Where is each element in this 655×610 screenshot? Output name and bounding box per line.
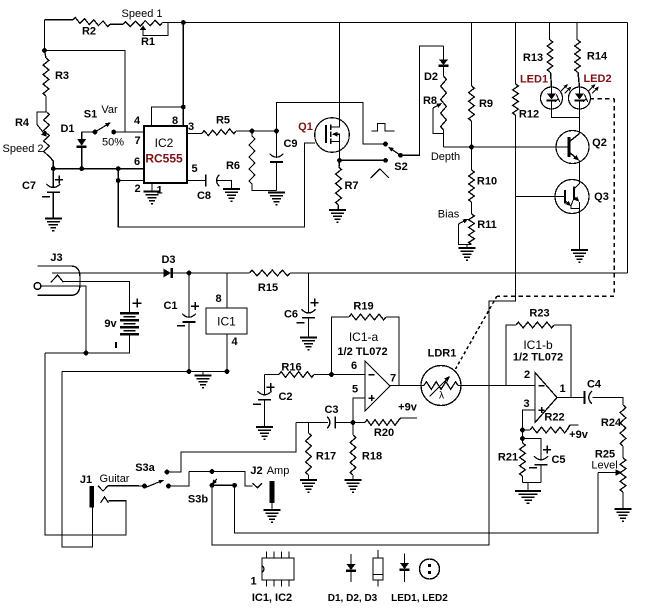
potentiometer R11 Bias <box>438 209 497 245</box>
resistor R9 <box>469 23 493 148</box>
svg-text:R6: R6 <box>226 160 240 172</box>
svg-text:C2: C2 <box>278 391 292 403</box>
wire LDR left <box>421 385 424 387</box>
wire R5 junction to C9 <box>252 130 277 132</box>
switch S1 <box>84 104 124 149</box>
svg-text:+9v: +9v <box>398 402 418 414</box>
svg-text:50%: 50% <box>102 137 124 149</box>
resistor R10 <box>469 147 497 214</box>
pin label IC1b 2 <box>524 369 530 381</box>
resistor R7 <box>336 160 359 209</box>
capacitor C1 <box>163 273 199 372</box>
wire IC1 pin4 <box>226 334 228 372</box>
svg-text:Bias: Bias <box>438 209 460 221</box>
svg-text:J1: J1 <box>80 474 92 486</box>
svg-text:C7: C7 <box>22 180 36 192</box>
svg-text:3: 3 <box>523 398 529 410</box>
svg-text:R4: R4 <box>15 117 30 129</box>
wire LDR to IC1b pin2 <box>458 385 535 387</box>
wire left rail <box>44 20 46 51</box>
wire rail drop to pins 4 8 <box>182 23 184 108</box>
resistor R14 <box>575 23 608 88</box>
diode D2 <box>424 46 449 83</box>
wire C1 to R15 <box>189 272 250 274</box>
symbol triangle wave <box>371 169 390 178</box>
svg-text:+9v: +9v <box>569 429 589 441</box>
transistor Q2 <box>556 131 607 164</box>
wire bus ground stem <box>202 372 204 376</box>
wire C3 right to junction <box>335 422 353 424</box>
svg-text:R5: R5 <box>216 115 230 127</box>
ground J2 <box>264 510 281 522</box>
wire C9 to S2 square input <box>277 103 386 145</box>
svg-text:D2: D2 <box>424 71 438 83</box>
ground C2 <box>256 427 273 439</box>
wire IC1a output <box>390 385 421 387</box>
svg-text:4: 4 <box>134 115 141 127</box>
resistor R18 <box>350 423 382 480</box>
svg-text:1/2 TL072: 1/2 TL072 <box>513 352 563 364</box>
wire IC2 pins 4 8 bracket <box>152 107 184 126</box>
capacitor C6 <box>284 273 319 337</box>
svg-text:8: 8 <box>172 115 178 127</box>
svg-text:R1: R1 <box>141 36 155 48</box>
node rail drop junction <box>181 20 186 25</box>
svg-text:IC1: IC1 <box>217 315 236 329</box>
wire bypass to J2 <box>189 472 253 487</box>
svg-text:R15: R15 <box>258 282 278 294</box>
svg-text:7: 7 <box>134 135 140 147</box>
switch S3a <box>135 462 171 488</box>
diode D3 <box>161 254 189 278</box>
ground IC2 pin1 <box>144 192 161 204</box>
ground R21 C5 <box>515 491 541 503</box>
node D1 junction <box>79 166 84 171</box>
ground R17 <box>300 480 317 492</box>
svg-text:D1, D2, D3: D1, D2, D3 <box>328 593 378 604</box>
label Depth <box>431 151 460 163</box>
battery 9v <box>104 299 141 348</box>
wire S1 contact to pin7 <box>114 131 144 133</box>
svg-text:1: 1 <box>250 576 256 588</box>
wire C8 to ground <box>217 181 232 189</box>
wire pin3 input <box>523 410 536 439</box>
svg-text:LED1, LED2: LED1, LED2 <box>391 593 448 604</box>
wire R15 to right rail <box>309 272 628 274</box>
svg-text:2: 2 <box>134 183 140 195</box>
node pin6 R19 junction <box>329 372 334 377</box>
wire bus to J1 body <box>62 372 93 548</box>
potentiometer R4 Speed 2 <box>3 112 54 169</box>
svg-text:R13: R13 <box>523 52 543 64</box>
wire S2 pole to D2 <box>401 46 444 155</box>
pin label IC1 8 <box>215 293 221 305</box>
svg-text:Q2: Q2 <box>592 137 607 149</box>
wire IC1 pin8 <box>226 273 228 308</box>
wire LED1 bottom <box>552 109 580 118</box>
svg-text:R18: R18 <box>362 451 382 463</box>
switch S3b <box>188 479 237 506</box>
svg-text:9v: 9v <box>104 318 117 330</box>
wire oscillator bottom control <box>53 168 144 170</box>
wire C3 left segment <box>296 422 328 424</box>
svg-text:S3b: S3b <box>188 494 208 506</box>
pin label 2 <box>134 183 140 195</box>
svg-text:D3: D3 <box>161 254 175 266</box>
wire pin6 to pin2 drop <box>117 169 119 181</box>
wire R12 column down <box>212 197 516 546</box>
node R2-R3 junction <box>42 48 47 53</box>
ground C6 <box>300 338 317 350</box>
pin label IC1b 3 <box>523 398 529 410</box>
ground main bus <box>195 376 212 388</box>
potentiometer R1 Speed 1 <box>122 8 168 48</box>
wire R21 C5 bottom <box>523 482 542 484</box>
resistor R22 to +9v <box>523 412 589 442</box>
wire Q1 source <box>339 153 341 161</box>
svg-text:R2: R2 <box>82 26 96 38</box>
op-amp IC1-b <box>513 338 563 423</box>
pin label 4 <box>134 115 141 127</box>
wire R21 ground stem <box>527 483 529 491</box>
ground R11 <box>459 248 476 260</box>
IC IC2 RC555 <box>144 126 187 183</box>
resistor R20 to +9v <box>353 402 418 440</box>
symbol square wave <box>372 124 395 132</box>
capacitor C5 <box>523 439 566 483</box>
svg-text:Amp: Amp <box>267 465 290 477</box>
node Q1 source junction <box>337 158 342 163</box>
svg-text:6: 6 <box>351 360 357 372</box>
wire IC2 pin3 stub <box>187 133 202 135</box>
wire Q1 source to S2 <box>340 159 386 161</box>
resistor R13 <box>523 23 553 88</box>
switch S2 <box>383 142 408 173</box>
wire LED2 bottom to Q2 collector <box>579 109 581 134</box>
resistor R19 feedback <box>332 301 400 386</box>
svg-text:5: 5 <box>191 163 197 175</box>
wire S1 pole to D1 <box>82 131 95 133</box>
wire IC2 pin5 stub <box>187 180 206 182</box>
node R9 depth junction <box>469 145 474 150</box>
node R4-C7-D1 wire junction <box>51 166 56 171</box>
wire J1 tip to S3a <box>108 485 145 487</box>
legend diode package <box>373 550 383 587</box>
node pin4 ground junction <box>225 369 230 374</box>
wire S3a bypass throw <box>169 472 190 487</box>
svg-text:LED1: LED1 <box>520 74 548 86</box>
svg-text:S1: S1 <box>84 109 97 121</box>
node S3b pole junction <box>210 469 215 474</box>
wire C3 to S3a <box>167 423 296 473</box>
potentiometer R25 Level <box>591 449 626 509</box>
wire Q2 emitter to Q3 <box>579 161 581 184</box>
svg-text:Level: Level <box>591 460 617 472</box>
resistor R12 <box>513 23 539 197</box>
wire J2 sleeve <box>271 503 273 510</box>
capacitor C3 <box>324 404 338 429</box>
LED LED1 <box>520 74 572 110</box>
resistor R5 <box>202 115 252 136</box>
node C1 junction <box>187 271 192 276</box>
pin label 8 <box>172 115 178 127</box>
svg-text:C8: C8 <box>197 190 211 202</box>
svg-text:C4: C4 <box>587 379 602 391</box>
ground C9 R6 <box>268 193 285 205</box>
svg-text:6: 6 <box>134 156 140 168</box>
resistor R17 <box>306 423 336 480</box>
svg-text:Q3: Q3 <box>594 191 609 203</box>
wire pin2 stub <box>118 180 144 182</box>
wire Q1 drain from rail <box>339 23 341 119</box>
pin label 6 <box>134 156 140 168</box>
node C3 R18 R20 pin5 junction <box>351 420 356 425</box>
capacitor C2 <box>253 375 293 427</box>
svg-text:3: 3 <box>188 121 194 133</box>
pin label 5 <box>191 163 197 175</box>
ground C7 <box>45 219 62 231</box>
resistor R2 <box>73 18 110 38</box>
legend DIP package IC1 IC2 <box>250 552 294 605</box>
wire S3a effect throw to C3 <box>167 471 181 473</box>
svg-text:4: 4 <box>231 336 238 348</box>
ground R25 <box>615 509 632 521</box>
svg-text:C1: C1 <box>163 300 177 312</box>
svg-text:Depth: Depth <box>431 151 460 163</box>
svg-text:R12: R12 <box>519 109 539 121</box>
legend diode symbol <box>328 554 378 604</box>
resistor R16 <box>265 362 332 378</box>
node pins 4 8 junction <box>181 105 186 110</box>
node R22 pin3 junction <box>520 428 525 433</box>
svg-text:Speed 2: Speed 2 <box>3 143 44 155</box>
wire J3 center pin <box>41 286 86 353</box>
svg-text:RC555: RC555 <box>145 152 183 166</box>
svg-text:R14: R14 <box>587 51 608 63</box>
capacitor C4 <box>585 379 602 405</box>
svg-text:2: 2 <box>524 369 530 381</box>
svg-text:7: 7 <box>390 373 396 385</box>
svg-text:R20: R20 <box>374 427 394 439</box>
svg-text:S3a: S3a <box>135 462 155 474</box>
wire dashed LED2 to LDR optical <box>456 99 615 370</box>
wire right power rail <box>627 23 629 274</box>
svg-text:J2: J2 <box>250 465 262 477</box>
svg-text:IC1-a: IC1-a <box>349 330 379 344</box>
wire C4 to R24 <box>593 398 624 406</box>
svg-text:D1: D1 <box>60 123 74 135</box>
svg-text:5: 5 <box>352 384 358 396</box>
capacitor C7 <box>22 169 63 218</box>
IC IC1 supply box <box>206 308 247 334</box>
wire Depth line <box>444 146 570 148</box>
diode D1 <box>60 123 86 169</box>
svg-text:R7: R7 <box>344 180 358 192</box>
wire top rail left segment <box>45 19 74 21</box>
node R5-R6 junction <box>250 129 255 134</box>
svg-text:J3: J3 <box>50 252 62 264</box>
wire R25 wiper output <box>235 473 599 534</box>
resistor R6 <box>226 131 277 191</box>
svg-text:R8: R8 <box>423 95 437 107</box>
svg-text:R23: R23 <box>529 308 549 320</box>
node C1 ground junction <box>187 369 192 374</box>
svg-text:λ: λ <box>439 391 444 402</box>
svg-text:Speed 1: Speed 1 <box>122 8 163 20</box>
svg-text:R17: R17 <box>316 451 336 463</box>
wire IC1b output <box>557 397 584 399</box>
legend LED symbol <box>391 554 448 605</box>
svg-text:LDR1: LDR1 <box>428 348 457 360</box>
capacitor C8 <box>197 175 219 202</box>
svg-text:R19: R19 <box>353 301 373 313</box>
wire ground loop to J1 sleeve <box>45 353 126 535</box>
wire Q3 emitter to ground <box>579 209 581 250</box>
transistor Q3 darlington <box>555 180 609 214</box>
svg-text:R16: R16 <box>281 362 301 374</box>
svg-text:LED2: LED2 <box>583 73 611 85</box>
LED LED2 <box>569 73 612 109</box>
pin label IC1b 1 <box>559 383 565 395</box>
svg-text:1/2 TL072: 1/2 TL072 <box>337 346 387 358</box>
svg-text:C9: C9 <box>283 138 297 150</box>
svg-text:8: 8 <box>215 293 221 305</box>
node pin2 junction <box>116 178 121 183</box>
ground Q3 <box>571 250 588 262</box>
ground R7 <box>329 210 346 222</box>
svg-text:Guitar: Guitar <box>100 473 130 485</box>
wire oscillator bottom loop to Q1 gate <box>118 143 315 227</box>
wire Q3 base <box>516 196 566 198</box>
connector J2 <box>250 465 289 503</box>
svg-text:IC1, IC2: IC1, IC2 <box>252 592 292 604</box>
wire battery minus <box>45 334 130 353</box>
svg-text:R9: R9 <box>479 98 493 110</box>
potentiometer R8 <box>423 76 446 147</box>
svg-text:IC2: IC2 <box>155 136 174 150</box>
svg-text:C6: C6 <box>284 309 298 321</box>
node R21 C5 junction <box>520 436 525 441</box>
capacitor C9 <box>270 131 298 191</box>
svg-text:R24: R24 <box>601 417 622 429</box>
resistor R3 <box>43 51 69 113</box>
pin label 3 <box>188 121 194 133</box>
svg-text:1: 1 <box>559 383 565 395</box>
node battery minus junction <box>84 351 89 356</box>
wire IC2 pin1 stub <box>151 183 153 191</box>
wire between R2 and R1 <box>110 23 123 25</box>
resistor R21 <box>498 439 525 483</box>
resistor R23 feedback <box>506 308 571 398</box>
svg-text:IC1-b: IC1-b <box>523 338 553 352</box>
wire J3 battery plus <box>64 282 130 314</box>
svg-text:C5: C5 <box>551 454 565 466</box>
resistor R15 <box>250 270 309 294</box>
pin label 1 <box>156 185 162 197</box>
ground R18 <box>345 480 362 492</box>
pin label IC1a 6 <box>351 360 357 372</box>
wire top rail right segment <box>163 22 628 24</box>
svg-text:R11: R11 <box>477 219 497 231</box>
pin label 7 <box>134 135 140 147</box>
pin label IC1a 5 <box>352 384 358 396</box>
wire pin6 input <box>332 374 366 376</box>
op-amp IC1-a <box>337 330 390 411</box>
svg-text:R21: R21 <box>498 452 518 464</box>
svg-text:S2: S2 <box>394 161 407 173</box>
svg-text:R3: R3 <box>55 70 69 82</box>
wire R3 top to S1 riser <box>45 51 126 133</box>
pin label IC1 4 <box>231 336 238 348</box>
svg-text:C3: C3 <box>324 404 338 416</box>
resistor R24 <box>601 405 626 458</box>
ground C8 <box>223 189 240 201</box>
wire pin5 input <box>353 398 365 423</box>
connector J3 <box>34 252 80 295</box>
svg-text:R22: R22 <box>544 412 564 424</box>
node C9 junction <box>274 129 279 134</box>
wire J3 plus output <box>52 272 164 274</box>
pin label IC1a 7 <box>390 373 396 385</box>
svg-text:Var: Var <box>101 104 118 116</box>
wire R11 ground stem <box>466 245 468 248</box>
transistor Q1 <box>298 118 349 153</box>
wire ground bus <box>62 371 227 373</box>
svg-text:R10: R10 <box>477 176 497 188</box>
node pin6 junction <box>116 166 121 171</box>
svg-text:Q1: Q1 <box>298 121 313 133</box>
LDR LDR1 <box>421 348 461 406</box>
connector J1 <box>80 473 130 508</box>
